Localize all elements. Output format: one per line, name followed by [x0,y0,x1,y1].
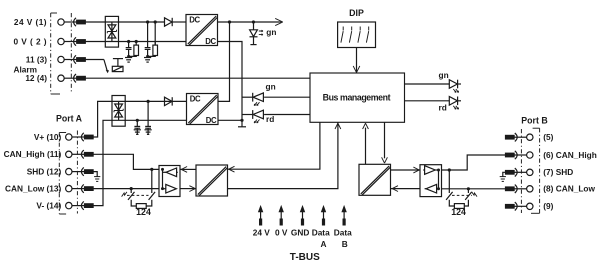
svg-text:0 V: 0 V [275,228,288,238]
svg-text:GND: GND [291,228,309,238]
svg-text:124: 124 [451,207,466,217]
svg-text:Data: Data [334,228,352,238]
svg-text:DC: DC [189,16,200,25]
svg-text:CAN_High (11): CAN_High (11) [4,149,62,159]
svg-text:Port A: Port A [56,114,83,124]
svg-text:CAN_Low (13): CAN_Low (13) [5,184,61,194]
svg-text:24 V: 24 V [253,228,271,238]
svg-text:Bus management: Bus management [323,93,391,103]
svg-text:24 V (1): 24 V (1) [14,17,47,27]
svg-text:V+ (10): V+ (10) [34,132,62,142]
svg-text:rd: rd [266,114,274,124]
svg-text:gn: gn [266,27,276,37]
svg-text:DC: DC [206,116,217,125]
svg-text:11 (3): 11 (3) [26,54,47,64]
svg-text:SHD (12): SHD (12) [27,167,62,177]
svg-text:124: 124 [136,207,151,217]
svg-text:DIP: DIP [349,8,364,18]
svg-text:Port B: Port B [521,115,547,125]
svg-text:(5): (5) [543,132,553,142]
svg-text:DC: DC [205,37,216,46]
svg-text:A: A [321,239,327,249]
svg-text:(7) SHD: (7) SHD [543,167,573,177]
svg-text:B: B [342,239,348,249]
svg-text:(9): (9) [543,201,553,211]
svg-text:(6) CAN_High: (6) CAN_High [543,150,596,160]
svg-text:0 V ( 2 ): 0 V ( 2 ) [13,36,47,46]
svg-text:V- (14): V- (14) [36,201,61,211]
svg-text:(8) CAN_Low: (8) CAN_Low [543,184,595,194]
svg-text:gn: gn [266,82,276,92]
svg-text:T-BUS: T-BUS [290,252,320,263]
svg-text:gn: gn [439,70,449,80]
svg-text:12 (4): 12 (4) [25,73,47,83]
svg-text:DC: DC [190,95,201,104]
svg-text:Data: Data [312,228,330,238]
svg-text:rd: rd [439,103,447,113]
